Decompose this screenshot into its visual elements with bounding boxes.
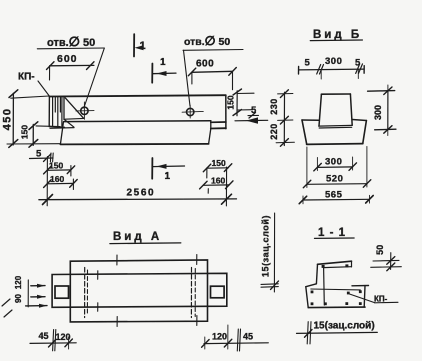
- right vertical extension: [225, 167, 227, 206]
- label KP- leader: [38, 81, 49, 96]
- hidden hole line left: [84, 268, 86, 318]
- svg-text:50: 50: [375, 245, 385, 255]
- left leg inner vertical: [323, 268, 326, 305]
- VIEW B (end view, top right): [299, 40, 396, 204]
- svg-text:90: 90: [14, 294, 23, 303]
- KP leader: [350, 294, 375, 303]
- dim 450 left: [12, 93, 14, 145]
- dim 230/220 line: [283, 92, 285, 145]
- svg-text:отв.∅ 50: отв.∅ 50: [184, 34, 230, 48]
- svg-text:120: 120: [56, 332, 71, 342]
- dim 150 lower-right: [207, 167, 229, 169]
- slab right edge slant: [209, 129, 211, 144]
- beam top edge: [49, 95, 225, 96]
- svg-text:160: 160: [50, 174, 64, 184]
- dim 300 right side: [387, 91, 389, 130]
- VIEW A (plan view, bottom left): [2, 213, 279, 351]
- svg-text:150: 150: [20, 125, 30, 139]
- SECTION 1-1 (bottom right): [297, 238, 402, 344]
- flange rectangle: [52, 273, 227, 307]
- svg-text:1: 1: [140, 40, 146, 52]
- gusset diagonals: [64, 119, 74, 127]
- bottom of beam inside pedestal (double line): [319, 124, 352, 127]
- svg-text:1 - 1: 1 - 1: [318, 227, 346, 239]
- right side 15 zasch sloy dim: [273, 213, 275, 292]
- svg-text:15(зац.слой): 15(зац.слой): [314, 321, 375, 332]
- VIEW A texts: [14, 215, 271, 342]
- right end notch: [210, 121, 212, 129]
- dim 5 right end: [248, 114, 259, 116]
- title underline: [315, 237, 355, 239]
- svg-text:Вид А: Вид А: [113, 231, 162, 243]
- svg-text:1: 1: [165, 171, 171, 182]
- hidden hole lines right: [190, 268, 192, 318]
- hole 2: [187, 108, 194, 115]
- svg-text:120: 120: [14, 275, 23, 289]
- svg-text:5: 5: [251, 105, 257, 116]
- top block (beam cross-section): [321, 93, 350, 95]
- left dims of view A: [27, 280, 29, 307]
- svg-text:5: 5: [305, 58, 311, 69]
- beam right edge: [225, 95, 227, 129]
- dim 520: [307, 183, 367, 186]
- VIEW B texts: [305, 29, 384, 201]
- title underline: [110, 242, 181, 245]
- slab left edge: [61, 122, 64, 144]
- svg-text:15(зац.слой): 15(зац.слой): [261, 215, 271, 277]
- dim 150 left: [32, 124, 34, 145]
- dim 5 lower-left: [30, 157, 54, 160]
- dim 5-300-5 top: [299, 68, 365, 71]
- label otv.50 #1 leader: [37, 47, 104, 50]
- MAIN VIEW TEXTS: [2, 34, 280, 199]
- svg-text:600: 600: [57, 53, 78, 65]
- beam middle edge (slab top): [64, 120, 211, 123]
- section flag 1 lower: [151, 158, 153, 179]
- svg-text:150: 150: [226, 95, 236, 109]
- svg-text:600: 600: [196, 59, 214, 70]
- svg-text:КП-: КП-: [374, 295, 388, 304]
- svg-text:5: 5: [36, 149, 42, 160]
- svg-text:Вид Б: Вид Б: [313, 29, 362, 41]
- svg-text:565: 565: [325, 190, 343, 201]
- svg-text:300: 300: [325, 157, 342, 168]
- dim 160 lower-left: [47, 182, 73, 184]
- svg-text:2560: 2560: [127, 188, 156, 199]
- svg-text:450: 450: [2, 108, 14, 131]
- edge ticks left: [97, 271, 99, 280]
- SECTION 1-1 texts: [314, 227, 388, 332]
- flange bottom stub at left: [65, 117, 84, 120]
- base block: [306, 287, 308, 308]
- dim 45/120 bottom left: [30, 342, 76, 345]
- dim 2560: [39, 198, 237, 201]
- dim 565: [303, 198, 370, 201]
- stubs over outer rect: [116, 255, 118, 265]
- section flag 1 upper: [151, 64, 153, 83]
- svg-text:отв.∅ 50: отв.∅ 50: [47, 34, 95, 49]
- right square hole: [211, 286, 225, 298]
- dim 600 #1: [50, 64, 94, 66]
- svg-text:КП-: КП-: [18, 72, 35, 83]
- svg-text:1: 1: [160, 57, 166, 68]
- channel foot: [49, 126, 64, 129]
- dim 120/45 bottom right: [204, 342, 268, 345]
- dim 150 right end: [236, 91, 238, 116]
- title underline: [310, 39, 362, 42]
- svg-text:300: 300: [325, 56, 342, 67]
- svg-text:300: 300: [373, 105, 383, 120]
- embedded channel KP at left end: [48, 97, 50, 127]
- left vertical extension: [46, 157, 48, 206]
- svg-text:45: 45: [243, 332, 253, 342]
- dim 50 top right: [373, 259, 399, 262]
- dim 600 #2: [192, 71, 233, 72]
- slab outer rectangle: [70, 260, 207, 322]
- bottom-left corner marks: [2, 299, 10, 306]
- svg-text:45: 45: [39, 331, 49, 341]
- svg-text:230: 230: [269, 98, 279, 115]
- svg-text:120: 120: [212, 332, 227, 342]
- dim 300 bottom: [317, 166, 352, 169]
- plate rebar dots: [322, 265, 325, 268]
- section mark 1 upper-left: [133, 34, 135, 56]
- dim 150 lower-left: [47, 169, 71, 171]
- slab bottom edge: [60, 143, 208, 146]
- view B direction arrow: [235, 119, 268, 122]
- top plate: [318, 261, 352, 264]
- dim 15 zasch sloy bottom: [297, 332, 378, 333]
- svg-text:5: 5: [355, 58, 361, 69]
- label otv.50 #2 leader: [183, 49, 243, 52]
- dim 160 lower-right: [203, 184, 229, 186]
- svg-text:220: 220: [269, 123, 279, 140]
- base rebar dots: [311, 291, 314, 294]
- svg-text:150: 150: [49, 160, 63, 170]
- svg-text:150: 150: [212, 158, 226, 168]
- pedestal block: [302, 119, 319, 121]
- left leg outer: [316, 264, 317, 284]
- inner horizontal line: [311, 288, 361, 291]
- left square hole: [55, 286, 69, 298]
- MAIN VIEW DIMENSIONS: [7, 34, 294, 206]
- svg-text:520: 520: [326, 174, 343, 185]
- svg-text:160: 160: [211, 175, 225, 185]
- hole 1: [81, 107, 88, 114]
